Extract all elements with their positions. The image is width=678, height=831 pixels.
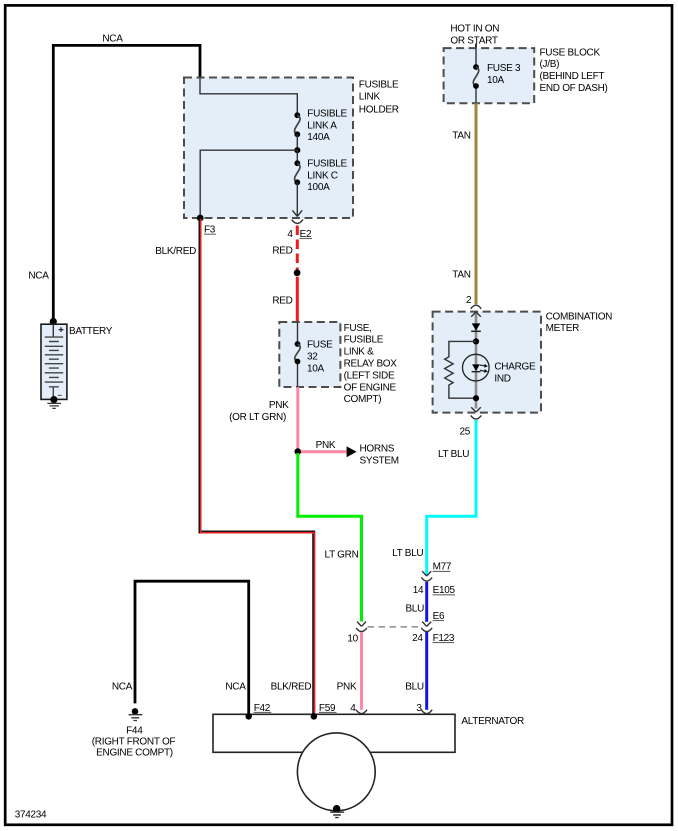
ground battery	[47, 403, 61, 408]
svg-text:RELAY BOX: RELAY BOX	[344, 359, 398, 370]
svg-text:10A: 10A	[487, 75, 505, 86]
wire NCA left vertical to battery	[52, 44, 55, 319]
fusible link A	[294, 112, 300, 118]
node meter bottom	[473, 395, 479, 401]
wire internal holder top	[200, 78, 297, 114]
wire junction to F3	[200, 150, 297, 217]
svg-text:PNK: PNK	[316, 440, 336, 451]
pin arrow E2 male	[292, 210, 302, 216]
pin 25 male arrow	[471, 407, 481, 412]
svg-text:(J/B): (J/B)	[540, 59, 560, 70]
svg-text:LINK C: LINK C	[307, 171, 338, 182]
svg-text:10: 10	[347, 634, 358, 645]
svg-text:(BEHIND LEFT: (BEHIND LEFT	[540, 71, 605, 82]
battery	[41, 324, 67, 399]
svg-text:TAN: TAN	[452, 130, 470, 141]
arrow horns system	[347, 446, 357, 457]
combination meter box	[433, 312, 541, 413]
node F42	[245, 713, 252, 720]
svg-text:14: 14	[413, 585, 424, 596]
svg-text:24: 24	[412, 633, 423, 644]
LED symbol	[472, 364, 480, 370]
alternator box	[213, 714, 455, 752]
wire BLK/RED (red half)	[201, 219, 315, 716]
connector pin25 female	[471, 415, 482, 419]
svg-text:374234: 374234	[15, 809, 47, 820]
svg-text:FUSIBLE: FUSIBLE	[307, 158, 347, 169]
svg-text:LT BLU: LT BLU	[438, 449, 469, 460]
node F3	[197, 215, 204, 222]
svg-text:4: 4	[287, 229, 293, 240]
svg-text:COMBINATION: COMBINATION	[546, 312, 613, 323]
svg-text:32: 32	[307, 352, 318, 363]
svg-text:FUSE BLOCK: FUSE BLOCK	[540, 47, 601, 58]
wire PNK to horns	[301, 450, 347, 453]
svg-text:25: 25	[459, 426, 470, 437]
svg-text:LINK: LINK	[359, 92, 381, 103]
svg-text:PNK: PNK	[337, 681, 357, 692]
fuse 3	[473, 64, 479, 70]
fuse block box	[444, 48, 535, 103]
wire internal meter vertical	[475, 312, 478, 408]
diode D1 meter	[472, 323, 481, 330]
wire between link A and junction	[296, 134, 298, 150]
svg-text:HORNS: HORNS	[360, 443, 395, 454]
svg-text:FUSIBLE: FUSIBLE	[307, 109, 347, 120]
wire BLU upper	[425, 582, 428, 622]
svg-text:FUSIBLE: FUSIBLE	[359, 80, 399, 91]
connector E6 male arrow	[422, 622, 431, 627]
svg-text:NCA: NCA	[102, 33, 123, 44]
wire RED dashed from E2	[296, 226, 299, 270]
svg-text:METER: METER	[546, 323, 580, 334]
svg-text:END OF DASH): END OF DASH)	[540, 83, 608, 94]
svg-text:FUSE,: FUSE,	[344, 323, 372, 334]
fusible link C	[294, 160, 300, 166]
wire NCA top horizontal	[53, 44, 200, 47]
svg-text:LT BLU: LT BLU	[392, 548, 423, 559]
wire BLK/RED F3 to F59 (black half)	[200, 219, 314, 716]
wire internal fuse3	[475, 48, 477, 103]
svg-text:2: 2	[466, 295, 472, 306]
stub to fuse block	[475, 44, 477, 49]
wire PNK lower	[360, 632, 363, 710]
svg-text:100A: 100A	[307, 182, 330, 193]
battery minus	[58, 394, 62, 396]
svg-text:SYSTEM: SYSTEM	[360, 456, 399, 467]
svg-text:NCA: NCA	[225, 681, 246, 692]
svg-text:10A: 10A	[307, 363, 325, 374]
connector 10 male arrow	[357, 622, 366, 627]
svg-text:F44: F44	[126, 725, 143, 736]
battery top dot	[50, 318, 57, 325]
svg-text:PNK: PNK	[269, 400, 289, 411]
svg-text:ENGINE COMPT): ENGINE COMPT)	[96, 748, 173, 759]
connector M77 male arrow	[422, 571, 431, 576]
svg-text:RED: RED	[272, 295, 292, 306]
node meter top	[473, 338, 479, 344]
connector M77 female	[421, 578, 432, 582]
node junction in holder	[294, 147, 300, 153]
fuse 32	[295, 341, 301, 347]
svg-text:OF ENGINE: OF ENGINE	[344, 382, 397, 393]
connector 10 female	[356, 628, 367, 632]
svg-text:(OR LT GRN): (OR LT GRN)	[229, 412, 286, 423]
svg-text:OR START: OR START	[450, 36, 497, 47]
wire RED solid	[296, 277, 299, 322]
battery plus	[59, 327, 64, 332]
alternator circle	[297, 733, 375, 811]
wire NCA bottom loop	[135, 581, 249, 714]
connector pin4 female	[356, 710, 367, 714]
wire junction to link C	[296, 150, 298, 163]
wire PNK from fuse32	[296, 387, 299, 452]
pin 2 male arrow	[471, 312, 481, 317]
lamp CHARGE IND circle	[463, 354, 490, 381]
ground alternator	[333, 805, 340, 812]
svg-text:HOT IN ON: HOT IN ON	[450, 24, 499, 35]
ground F44	[132, 708, 139, 715]
wire TAN	[475, 103, 478, 304]
svg-text:4: 4	[350, 703, 356, 714]
svg-text:ALTERNATOR: ALTERNATOR	[461, 716, 524, 727]
svg-text:RED: RED	[272, 246, 292, 257]
svg-text:3: 3	[416, 703, 422, 714]
connector pin3 female	[421, 710, 432, 714]
svg-text:BLU: BLU	[405, 604, 424, 615]
wire link C to exit arrow	[296, 182, 298, 216]
resistor R1 meter branch	[445, 341, 476, 398]
node pnk splice	[295, 448, 302, 455]
svg-text:FUSIBLE: FUSIBLE	[344, 335, 384, 346]
svg-text:BATTERY: BATTERY	[69, 326, 113, 337]
wire NCA drop into fusible link holder	[199, 44, 202, 78]
svg-text:LINK &: LINK &	[344, 347, 375, 358]
wire LT BLU	[427, 420, 476, 575]
connector F123 female	[421, 628, 432, 632]
wire internal fuse32	[297, 322, 299, 387]
wire BLU lower	[425, 632, 428, 710]
node F59	[311, 713, 318, 720]
wire dashed connector link	[368, 626, 422, 628]
svg-text:FUSE 3: FUSE 3	[487, 63, 521, 74]
fusible link holder box	[184, 78, 353, 219]
svg-text:140A: 140A	[307, 132, 330, 143]
node red splice	[294, 269, 301, 276]
connector E2 female	[292, 220, 303, 224]
svg-text:FUSE: FUSE	[307, 340, 333, 351]
svg-text:BLK/RED: BLK/RED	[155, 246, 196, 257]
fuse fusible link relay box	[279, 322, 340, 387]
svg-text:NCA: NCA	[112, 681, 133, 692]
connector pin2 female arch	[471, 305, 482, 309]
svg-text:(RIGHT FRONT OF: (RIGHT FRONT OF	[92, 736, 176, 747]
svg-text:NCA: NCA	[28, 270, 49, 281]
svg-text:LINK A: LINK A	[307, 120, 337, 131]
svg-text:BLK/RED: BLK/RED	[271, 681, 312, 692]
svg-text:CHARGE: CHARGE	[494, 361, 536, 372]
wire LT GRN	[298, 453, 362, 622]
svg-text:HOLDER: HOLDER	[359, 104, 399, 115]
svg-text:IND: IND	[494, 374, 510, 385]
svg-text:LT GRN: LT GRN	[325, 549, 359, 560]
svg-text:(LEFT SIDE: (LEFT SIDE	[344, 370, 395, 381]
svg-text:BLU: BLU	[405, 681, 424, 692]
LED arrows	[480, 363, 488, 368]
svg-text:COMPT): COMPT)	[344, 394, 382, 405]
svg-text:TAN: TAN	[452, 269, 470, 280]
battery bottom dot	[50, 396, 57, 403]
